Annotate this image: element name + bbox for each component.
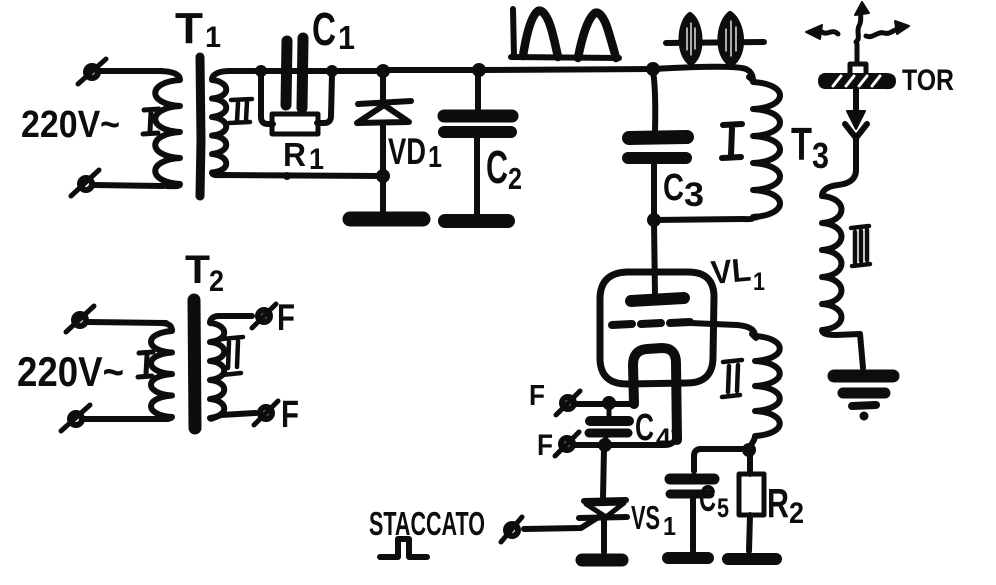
svg-text:1: 1 — [205, 21, 221, 54]
wire VD1 top stub — [380, 73, 386, 100]
capacitor C4 plate bottom — [589, 429, 628, 438]
svg-text:C: C — [699, 478, 716, 519]
wire F top to cathode left leg — [575, 401, 634, 407]
svg-text:STACCATO: STACCATO — [369, 505, 485, 542]
diode VD1 cathode bar — [358, 101, 411, 104]
wire C3 node to VL1 anode — [654, 222, 655, 296]
wire F bottom to cathode right leg — [574, 388, 676, 445]
wire C4 node to VS1 — [603, 449, 604, 498]
svg-text:C: C — [663, 167, 684, 209]
capacitor C5 plate bottom — [670, 490, 710, 499]
label III — [851, 226, 870, 266]
svg-text:F: F — [529, 380, 545, 412]
svg-text:5: 5 — [717, 493, 729, 523]
waveform half-sine pulse 2 — [578, 13, 616, 58]
blob on wire — [753, 214, 760, 221]
wire VD1 to ground — [380, 176, 386, 212]
terminal X1 bottom — [80, 178, 92, 190]
wire R2 to ground — [749, 515, 750, 551]
svg-text:T: T — [791, 118, 812, 170]
spark arrow up — [856, 12, 861, 42]
label I (T2 primary) — [138, 352, 153, 377]
node C3 bottom — [647, 213, 661, 227]
ground bar under VS1 — [582, 554, 622, 567]
VL1 anode plate — [631, 298, 684, 301]
ground bar under C2 — [445, 214, 508, 228]
capacitor C2 plate bottom — [444, 126, 511, 138]
C4 top stub — [607, 405, 612, 417]
terminal X1 top — [86, 66, 98, 78]
wire bus C3 to T3 winding I, transformer T3 winding I — [653, 67, 780, 219]
capacitor C1 plate right — [302, 38, 303, 108]
transformer T1 primary winding I — [155, 71, 180, 186]
wire VS1 to ground — [601, 519, 607, 552]
wire VD1 to bottom node — [380, 123, 386, 176]
node C4 top — [602, 396, 616, 410]
svg-text:1: 1 — [338, 19, 355, 56]
earth ground bars — [834, 370, 893, 383]
TOR electrode bar — [820, 75, 894, 87]
wire R1 left stub — [261, 75, 273, 124]
diode VD1 triangle — [357, 105, 409, 123]
VL1 grid dashes — [612, 322, 690, 325]
tube VL1 envelope — [600, 272, 714, 384]
svg-text:4: 4 — [656, 423, 671, 453]
wire to winding III — [822, 136, 856, 196]
transformer T1 secondary winding II — [212, 71, 230, 175]
terminal F2 T2 — [260, 407, 272, 419]
label II (T1 secondary) — [229, 99, 252, 123]
node C3 top — [646, 62, 660, 76]
capacitor C5 plate top — [670, 474, 714, 485]
wire winding II node to C5 — [694, 449, 749, 471]
wire winding III to ground — [860, 334, 863, 368]
T1 core — [200, 57, 201, 196]
wire under C1 — [283, 68, 332, 74]
svg-text:1: 1 — [309, 143, 324, 176]
svg-text:R: R — [283, 136, 306, 173]
wire bus VD1 to C2 — [383, 67, 479, 73]
blob on bottom wire — [283, 172, 291, 180]
waveform half-sine axis — [511, 9, 619, 58]
capacitor C3 plate top — [629, 137, 687, 138]
wire C5 to ground — [690, 498, 696, 551]
thyristor VS1 cathode bar — [579, 517, 627, 518]
ground bar under C5 — [668, 552, 708, 564]
transformer T2 primary winding I — [151, 323, 172, 419]
svg-text:C: C — [486, 141, 508, 193]
wire winding II node to R2 — [747, 452, 753, 474]
svg-text:F: F — [277, 297, 295, 338]
svg-text:F: F — [281, 394, 299, 436]
svg-text:2: 2 — [209, 265, 224, 298]
wire bus C2 to C3 — [479, 69, 653, 70]
terminal F top — [562, 397, 574, 409]
svg-text:2: 2 — [508, 161, 522, 196]
wire C1 to VD1 node — [332, 68, 383, 74]
svg-text:T: T — [185, 248, 210, 292]
svg-text:F: F — [537, 429, 553, 462]
node at C1 left — [255, 65, 267, 77]
wire bottom terminal to T2 primary — [84, 416, 168, 422]
tick on winding II top — [752, 334, 756, 338]
svg-text:3: 3 — [684, 176, 704, 214]
blobs on right leg — [672, 405, 681, 414]
svg-text:VD: VD — [388, 131, 426, 172]
wire C2 top stub — [475, 72, 481, 110]
thyristor VS1 triangle — [586, 503, 624, 517]
thyristor VS1 anode bar — [584, 500, 626, 501]
terminal X2 top — [74, 314, 86, 326]
wire winding I bottom to C3 node — [654, 219, 742, 220]
wire C2 bottom stub — [474, 138, 480, 214]
label I (T3 winding I) — [722, 124, 742, 158]
C4 bottom stub — [605, 437, 606, 445]
T2 core — [194, 300, 195, 428]
transformer T3 winding III — [822, 196, 860, 335]
node C2 top — [472, 63, 486, 77]
label I (T1 primary) — [143, 109, 159, 134]
burst spindle 2 — [720, 14, 741, 64]
pulse symbol — [380, 539, 427, 557]
svg-text:220V~: 220V~ — [21, 104, 120, 146]
capacitor C4 plate top — [590, 416, 629, 426]
tick on winding I top — [749, 77, 754, 81]
label II (T3 winding II) — [722, 360, 742, 397]
svg-text:T: T — [175, 4, 203, 53]
terminal staccato — [506, 524, 518, 536]
terminal F bottom — [561, 438, 573, 450]
node C4 bottom — [598, 438, 612, 452]
wire C3 top stub — [653, 71, 655, 131]
wire C3 bottom stub — [651, 164, 657, 219]
svg-text:VS: VS — [631, 499, 660, 536]
label II (T2 secondary) — [222, 337, 243, 375]
node VD1 top — [376, 64, 390, 78]
terminal X2 bottom — [70, 413, 82, 425]
waveform half-sine pulse 1 — [523, 11, 558, 57]
transformer T2 secondary winding II — [210, 316, 256, 419]
VL1 cathode — [633, 348, 677, 440]
wire T1 secondary top to C1 — [228, 68, 283, 74]
svg-text:VL: VL — [709, 251, 752, 291]
spark arrow right — [866, 29, 899, 37]
VS1 gate — [524, 516, 600, 529]
svg-text:220V~: 220V~ — [17, 348, 124, 395]
resistor R1 — [272, 114, 318, 134]
arrowhead solid down — [847, 111, 865, 129]
svg-text:R: R — [767, 480, 789, 526]
capacitor C1 plate left — [286, 41, 287, 105]
spark arrow left — [815, 32, 838, 34]
wire top terminal to T1 primary — [100, 68, 162, 74]
burst waveform axis — [666, 42, 764, 43]
capacitor C2 plate top — [444, 110, 512, 123]
resistor R2 — [739, 474, 764, 515]
node at C1 right — [326, 65, 338, 77]
TOR wire down — [853, 89, 859, 114]
ground bar under VD1 — [350, 212, 423, 227]
wire R1 right stub — [317, 75, 332, 123]
ground bar under R2 — [728, 553, 776, 565]
VL1 grid wire out — [690, 323, 737, 325]
wire bottom terminal to T1 primary — [94, 185, 163, 186]
svg-text:TOR: TOR — [902, 64, 954, 97]
node winding II bottom — [742, 443, 756, 457]
chevron down — [845, 124, 867, 138]
svg-text:C: C — [312, 3, 336, 55]
svg-text:1: 1 — [663, 511, 676, 541]
TOR stub — [855, 44, 860, 62]
svg-text:1: 1 — [753, 268, 765, 296]
svg-text:3: 3 — [812, 135, 829, 176]
TOR notch — [850, 64, 866, 74]
burst spindle 1 — [682, 15, 700, 63]
svg-text:2: 2 — [789, 497, 804, 530]
node VD1 bottom — [376, 169, 390, 183]
capacitor C3 plate bottom — [628, 152, 686, 164]
wire top terminal to T2 primary — [88, 322, 166, 323]
terminal F1 T2 — [258, 310, 270, 322]
svg-text:1: 1 — [428, 139, 442, 174]
transformer T3 winding II — [737, 325, 780, 452]
wire T1 secondary bottom to VD1 — [222, 175, 383, 176]
